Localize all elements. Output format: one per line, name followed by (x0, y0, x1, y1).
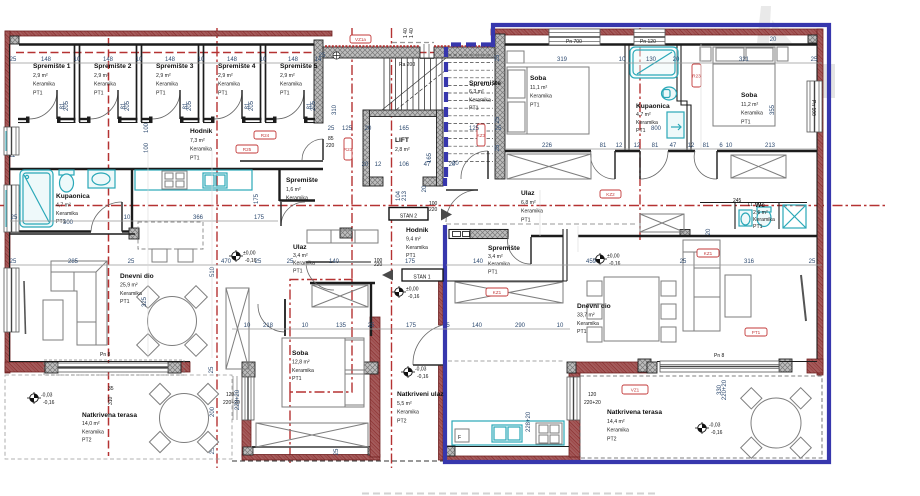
dim row y263 (10, 264, 443, 266)
svg-text:148: 148 (103, 57, 114, 63)
shower-basin stan1 (667, 112, 684, 138)
svg-text:PT1: PT1 (120, 299, 130, 305)
svg-text:12,8 m²: 12,8 m² (292, 359, 310, 365)
stan2 kitchen cabinets north band (307, 230, 378, 243)
sofa stan2 (51, 261, 107, 345)
svg-text:25: 25 (10, 259, 17, 265)
svg-text:10: 10 (136, 57, 143, 63)
svg-text:220+20: 220+20 (584, 400, 601, 406)
svg-text:6,3 m²: 6,3 m² (469, 89, 484, 95)
dashed table stan2 (138, 222, 203, 249)
stair diagonals (382, 58, 446, 110)
svg-text:25: 25 (209, 366, 215, 373)
svg-text:106: 106 (399, 162, 410, 168)
soba3 left wall lower (242, 372, 251, 457)
svg-text:148: 148 (41, 57, 52, 63)
svg-text:STAN 2: STAN 2 (400, 214, 417, 220)
svg-text:PT1: PT1 (33, 90, 43, 96)
svg-text:Hodnik: Hodnik (190, 128, 213, 135)
svg-text:4,7 m²: 4,7 m² (56, 202, 71, 208)
dining stan2 round table (148, 297, 197, 346)
svg-text:25: 25 (368, 323, 375, 329)
spremiste1 walls (446, 229, 567, 281)
shaft outline dash-dot (290, 280, 352, 393)
south window stan1 living (660, 361, 779, 372)
svg-text:20: 20 (770, 37, 777, 43)
svg-text:220: 220 (429, 207, 438, 213)
soba1/kupaonica1 wall (625, 44, 629, 150)
dim row y219 kitchen2 (10, 220, 278, 222)
svg-text:10: 10 (244, 323, 251, 329)
svg-text:Spremište 1: Spremište 1 (33, 63, 71, 70)
svg-text:25: 25 (334, 448, 340, 455)
spremiste16 walls (280, 169, 316, 201)
svg-text:PT1: PT1 (292, 376, 302, 382)
svg-text:Pn 120: Pn 120 (640, 39, 656, 45)
svg-text:KZ1: KZ1 (493, 290, 502, 295)
svg-text:Keramika: Keramika (488, 262, 510, 268)
svg-text:2,9 m²: 2,9 m² (280, 73, 295, 79)
svg-text:10: 10 (302, 323, 309, 329)
dim row y327 (232, 328, 570, 330)
wc fixtures stan1 (739, 210, 752, 226)
svg-text:PT1: PT1 (741, 119, 751, 125)
stan1 kitchen east wall (569, 373, 580, 457)
svg-text:-0,03: -0,03 (41, 393, 53, 399)
stan1 living north wall band (531, 235, 817, 237)
svg-text:20: 20 (362, 162, 369, 168)
svg-text:135: 135 (336, 323, 347, 329)
svg-text:220+20: 220+20 (235, 389, 241, 410)
svg-text:20: 20 (673, 57, 680, 63)
svg-text:Keramika: Keramika (741, 111, 763, 117)
spremiste16 door arc (281, 202, 305, 226)
svg-text:2,9 m²: 2,9 m² (33, 73, 48, 79)
wardrobe spremiste1 (455, 282, 563, 303)
svg-text:218: 218 (263, 323, 274, 329)
blue dashed part (446, 45, 491, 179)
svg-text:R23: R23 (344, 147, 353, 152)
right wall inner line (816, 44, 818, 359)
svg-text:140: 140 (329, 259, 340, 265)
south window left building (44, 360, 184, 375)
svg-text:Dnevni dio: Dnevni dio (120, 273, 154, 280)
kupaonica1 door arc (640, 151, 668, 179)
svg-text:10: 10 (74, 57, 81, 63)
svg-text:2,9 m²: 2,9 m² (218, 73, 233, 79)
wardrobe stan2 ulaz (312, 285, 368, 307)
svg-text:510: 510 (210, 266, 216, 277)
svg-text:Keramika: Keramika (577, 321, 599, 327)
axis line horizontal main (0, 205, 886, 207)
svg-text:175: 175 (254, 193, 260, 204)
KZ3 stairs (477, 124, 486, 146)
svg-text:213: 213 (402, 190, 408, 201)
svg-text:Pn 8: Pn 8 (100, 352, 111, 358)
svg-text:-0,16: -0,16 (711, 430, 723, 436)
left wall (5, 31, 10, 373)
stair treads upper flight dashed (448, 54, 493, 56)
svg-text:165: 165 (399, 126, 410, 132)
STAN 2 box (389, 208, 428, 221)
bed soba1 (507, 67, 589, 134)
stan1 kitchen south wall (443, 456, 580, 461)
stan1 top wall inner line (505, 43, 817, 45)
svg-text:2,8 m²: 2,8 m² (395, 147, 410, 153)
svg-text:R23: R23 (692, 73, 701, 78)
stairwell west wall gray (495, 34, 505, 179)
blue boundary solid (445, 25, 829, 462)
faint bottom next-sheet line (362, 493, 658, 495)
level marker stan1 living (593, 253, 621, 267)
stan2 ulaz walls (310, 283, 375, 336)
landing door arc (461, 151, 488, 179)
svg-text:200: 200 (210, 406, 216, 417)
svg-text:120: 120 (588, 392, 597, 398)
inner face top wall left (19, 43, 314, 45)
svg-text:PT1: PT1 (636, 128, 646, 134)
window top stan1 Pn120 (634, 29, 665, 45)
svg-text:Dnevni dio: Dnevni dio (577, 303, 611, 310)
R24 (254, 131, 276, 139)
svg-text:100: 100 (144, 142, 150, 153)
svg-text:PT1: PT1 (190, 155, 200, 161)
sofa stan1 (683, 240, 720, 331)
stan1 entrance door arc (446, 190, 478, 222)
KZ1 stan1 (697, 249, 719, 257)
axis vertical x352 (351, 28, 353, 283)
soba3 south wall (242, 455, 380, 461)
wardrobe soba3 (256, 423, 368, 447)
south wall left segment (5, 362, 47, 372)
bed soba2 (713, 47, 775, 126)
svg-text:Soba: Soba (741, 92, 757, 99)
svg-text:Kupaonica: Kupaonica (636, 103, 670, 110)
left wall inner line (9, 44, 11, 362)
svg-text:Soba: Soba (530, 75, 546, 82)
svg-text:25,9 m²: 25,9 m² (120, 282, 138, 288)
svg-text:316: 316 (744, 259, 755, 265)
right wall STAN1 (817, 29, 823, 375)
R23 lift (344, 138, 353, 160)
svg-text:140: 140 (472, 323, 483, 329)
svg-text:310: 310 (108, 396, 114, 405)
svg-text:228+20: 228+20 (526, 411, 532, 432)
gray columns south windows left bldg (45, 362, 58, 373)
svg-text:5,5 m²: 5,5 m² (397, 401, 412, 407)
axis line horizontal top (16, 52, 497, 54)
svg-text:6,8 m²: 6,8 m² (521, 200, 536, 206)
svg-text:PT1: PT1 (577, 329, 587, 335)
svg-text:47: 47 (670, 143, 677, 149)
R23 left (236, 145, 258, 153)
terrace2 table (751, 398, 801, 448)
svg-text:PT1: PT1 (521, 217, 531, 223)
svg-text:Keramika: Keramika (406, 245, 428, 251)
svg-text:PT1: PT1 (753, 224, 763, 230)
svg-text:355: 355 (770, 104, 776, 115)
washbasin stan2 (88, 170, 115, 188)
svg-text:213: 213 (765, 143, 776, 149)
svg-text:205: 205 (125, 100, 131, 111)
svg-text:PT2: PT2 (397, 418, 407, 424)
svg-text:STAN 1: STAN 1 (413, 275, 430, 281)
svg-text:±0,00: ±0,00 (243, 251, 256, 257)
svg-text:-0,03: -0,03 (709, 423, 721, 429)
hodnik2 south wall / bathroom+kitchen top (10, 168, 323, 170)
svg-text:Kupaonica: Kupaonica (56, 193, 90, 200)
stair hall top wall gray (323, 47, 420, 58)
storage dividers (75, 44, 80, 122)
svg-text:PT1: PT1 (218, 90, 228, 96)
R21 (486, 288, 508, 296)
stan1 north wall cabinet band (449, 230, 508, 239)
window right wall Pn100 (807, 81, 822, 132)
svg-text:205: 205 (249, 100, 255, 111)
stan1 rooms south walls (505, 150, 817, 152)
svg-text:25: 25 (811, 57, 818, 63)
svg-text:800: 800 (651, 126, 662, 132)
shower stan1 (783, 205, 806, 228)
svg-text:25: 25 (10, 57, 17, 63)
ulaz2 wall piece + door arc (334, 261, 371, 263)
svg-text:148: 148 (165, 57, 176, 63)
svg-text:285: 285 (68, 259, 79, 265)
svg-text:226: 226 (542, 143, 553, 149)
axis vertical x217 (216, 28, 218, 468)
level marker ulaz2 (229, 250, 257, 264)
svg-text:Spremište 4: Spremište 4 (218, 63, 256, 70)
svg-text:Spremište 3: Spremište 3 (156, 63, 194, 70)
stan1 livingroom SE corner (807, 359, 823, 373)
soba1 door arc (591, 151, 615, 179)
svg-text:4,7 m²: 4,7 m² (636, 112, 651, 118)
kitchen stan1 counter (452, 421, 564, 445)
svg-text:Keramika: Keramika (293, 261, 315, 267)
terrace1 table (160, 394, 209, 443)
svg-text:PT1: PT1 (156, 90, 166, 96)
svg-text:PT1: PT1 (488, 269, 498, 275)
stan1 west wall along blue (439, 278, 444, 325)
svg-text:7,3 m²: 7,3 m² (190, 138, 205, 144)
svg-text:Soba: Soba (292, 350, 308, 357)
stove stan2 (162, 171, 187, 189)
bed soba3 (282, 338, 364, 407)
svg-text:Spremište: Spremište (469, 80, 501, 87)
level marker terasa2 (695, 422, 723, 436)
svg-text:12: 12 (688, 143, 695, 149)
svg-text:KZ2: KZ2 (606, 192, 615, 197)
gray hatch in stan1 north interior wall (469, 230, 505, 237)
wardrobe wc left stan1 (640, 214, 684, 232)
svg-text:11,2 m²: 11,2 m² (741, 102, 758, 108)
svg-text:220: 220 (326, 143, 335, 149)
svg-text:PT1: PT1 (293, 268, 303, 274)
level marker stan1 box (392, 286, 420, 300)
svg-text:-0,03: -0,03 (415, 367, 427, 373)
svg-text:35: 35 (108, 386, 114, 392)
bottom dashed line left of blue (232, 460, 443, 462)
svg-text:Ulaz: Ulaz (293, 244, 307, 251)
svg-text:Natkriveni ulaz: Natkriveni ulaz (397, 391, 444, 398)
svg-text:Pn 8: Pn 8 (714, 353, 725, 359)
svg-text:25: 25 (287, 259, 294, 265)
LIFT walls (363, 110, 443, 186)
svg-text:Keramika: Keramika (469, 97, 491, 103)
toilet stan2 (59, 170, 74, 175)
living room north wall piece (10, 233, 135, 235)
svg-text:175: 175 (405, 259, 416, 265)
svg-text:319: 319 (557, 57, 568, 63)
svg-text:-0,16: -0,16 (43, 400, 55, 406)
columns stan1 south windows (638, 359, 651, 372)
wc walls (700, 203, 807, 230)
svg-text:81: 81 (652, 143, 659, 149)
svg-text:85: 85 (328, 136, 334, 142)
svg-text:2,9 m²: 2,9 m² (94, 73, 109, 79)
storage doors arcs (29, 90, 57, 119)
sink stan1 (492, 425, 522, 442)
svg-text:100: 100 (144, 122, 150, 133)
svg-text:Keramika: Keramika (156, 82, 178, 88)
stan1 kitchen door east (567, 377, 580, 420)
level marker terasa1 (27, 392, 55, 406)
svg-text:PT2: PT2 (82, 438, 92, 444)
svg-text:-0,16: -0,16 (408, 294, 420, 300)
watermark logo (757, 6, 835, 98)
R23 soba2 (692, 64, 701, 87)
columns soba3 (242, 362, 255, 377)
svg-text:25: 25 (128, 259, 135, 265)
PT1 stan1 (745, 328, 767, 336)
svg-text:Natkrivena terasa: Natkrivena terasa (82, 412, 137, 419)
fan symbol (333, 52, 340, 59)
svg-text:PT2: PT2 (607, 436, 617, 442)
soba3 north wall stub (284, 299, 286, 336)
svg-text:3,4 m²: 3,4 m² (293, 253, 308, 259)
top wall left building (5, 31, 332, 36)
svg-text:Keramika: Keramika (33, 82, 55, 88)
columns stan1 kitchen wall (567, 362, 576, 373)
svg-text:PT1: PT1 (469, 106, 479, 112)
svg-text:Ra 200: Ra 200 (399, 62, 415, 68)
svg-text:R25: R25 (243, 147, 252, 152)
svg-text:Keramika: Keramika (218, 82, 240, 88)
soba2 door arc (694, 151, 717, 179)
svg-text:F: F (458, 435, 461, 441)
svg-text:12: 12 (375, 162, 382, 168)
bathtub stan1 (630, 47, 678, 78)
svg-text:20: 20 (706, 228, 712, 235)
svg-text:3,4 m²: 3,4 m² (488, 254, 503, 260)
dim row stan1 mid y147 (505, 148, 817, 150)
soba3 west window (242, 377, 254, 420)
svg-text:10: 10 (124, 215, 131, 221)
svg-text:290: 290 (515, 323, 526, 329)
bathroom right wall (131, 169, 133, 234)
south wall left-bldg corner piece (180, 362, 190, 372)
svg-text:25: 25 (319, 53, 326, 59)
svg-text:10: 10 (726, 143, 733, 149)
svg-text:12: 12 (634, 143, 641, 149)
svg-text:25: 25 (495, 126, 502, 132)
svg-text:10: 10 (557, 323, 564, 329)
svg-text:Keramika: Keramika (190, 147, 212, 153)
svg-text:25: 25 (11, 215, 18, 221)
svg-text:148: 148 (227, 57, 238, 63)
svg-text:9,4 m²: 9,4 m² (406, 236, 421, 242)
svg-text:175: 175 (406, 323, 417, 329)
natkriveni ulaz door arc (413, 325, 443, 365)
svg-text:Hodnik: Hodnik (406, 227, 429, 234)
dim row stan1 top (505, 62, 822, 64)
VZ1a (350, 35, 371, 43)
svg-text:KZ3: KZ3 (477, 133, 486, 138)
svg-text:310: 310 (332, 104, 338, 115)
svg-text:Pn 700: Pn 700 (566, 39, 582, 45)
svg-text:125: 125 (342, 126, 353, 132)
svg-text:25: 25 (328, 126, 335, 132)
svg-text:366: 366 (193, 215, 204, 221)
toilet stan1 (662, 87, 677, 100)
svg-text:245: 245 (733, 198, 742, 204)
soba3 door arc (258, 304, 285, 332)
svg-text:81: 81 (703, 143, 710, 149)
bathroom south wall (10, 230, 135, 232)
svg-text:25: 25 (495, 116, 501, 123)
svg-text:PT1: PT1 (752, 330, 761, 335)
svg-text:205: 205 (311, 100, 317, 111)
svg-text:11,1 m²: 11,1 m² (530, 85, 547, 91)
svg-text:Keramika: Keramika (82, 429, 104, 435)
kitchen stan2 counter (135, 170, 252, 190)
living door arc (508, 237, 531, 264)
svg-text:Keramika: Keramika (607, 428, 629, 434)
svg-text:Spremište: Spremište (488, 245, 520, 252)
axis vertical x108 (108, 38, 110, 456)
stair treads left flight (383, 58, 385, 110)
svg-text:33,7 m²: 33,7 m² (577, 312, 595, 318)
axis vertical x391 (391, 28, 393, 468)
svg-text:205: 205 (64, 100, 70, 111)
svg-text:14,4 m²: 14,4 m² (607, 419, 625, 425)
svg-text:12: 12 (616, 143, 623, 149)
svg-text:Natkrivena terasa: Natkrivena terasa (607, 409, 662, 416)
svg-text:Keramika: Keramika (94, 82, 116, 88)
svg-text:10: 10 (198, 57, 205, 63)
svg-text:10: 10 (619, 57, 626, 63)
soba3 right wall (370, 317, 380, 457)
axis vertical x640 (639, 28, 641, 240)
dim row top storage (10, 62, 323, 64)
svg-text:2,9 m²: 2,9 m² (156, 73, 171, 79)
svg-text:140: 140 (473, 259, 484, 265)
svg-text:±0,00: ±0,00 (607, 254, 620, 260)
svg-text:20: 20 (452, 161, 459, 167)
svg-text:321: 321 (739, 57, 750, 63)
svg-text:25: 25 (495, 144, 501, 151)
svg-text:2,6 m²: 2,6 m² (753, 210, 768, 216)
storage right wall gray (314, 40, 323, 123)
svg-text:VZ1: VZ1 (631, 387, 640, 392)
STAN 1 box (402, 269, 443, 281)
svg-text:Keramika: Keramika (286, 196, 308, 202)
bathroom door arc (91, 202, 122, 232)
svg-text:14,0 m²: 14,0 m² (82, 421, 100, 427)
svg-text:47: 47 (424, 162, 431, 168)
svg-text:Keramika: Keramika (56, 211, 78, 217)
sink stan2 (203, 173, 227, 188)
